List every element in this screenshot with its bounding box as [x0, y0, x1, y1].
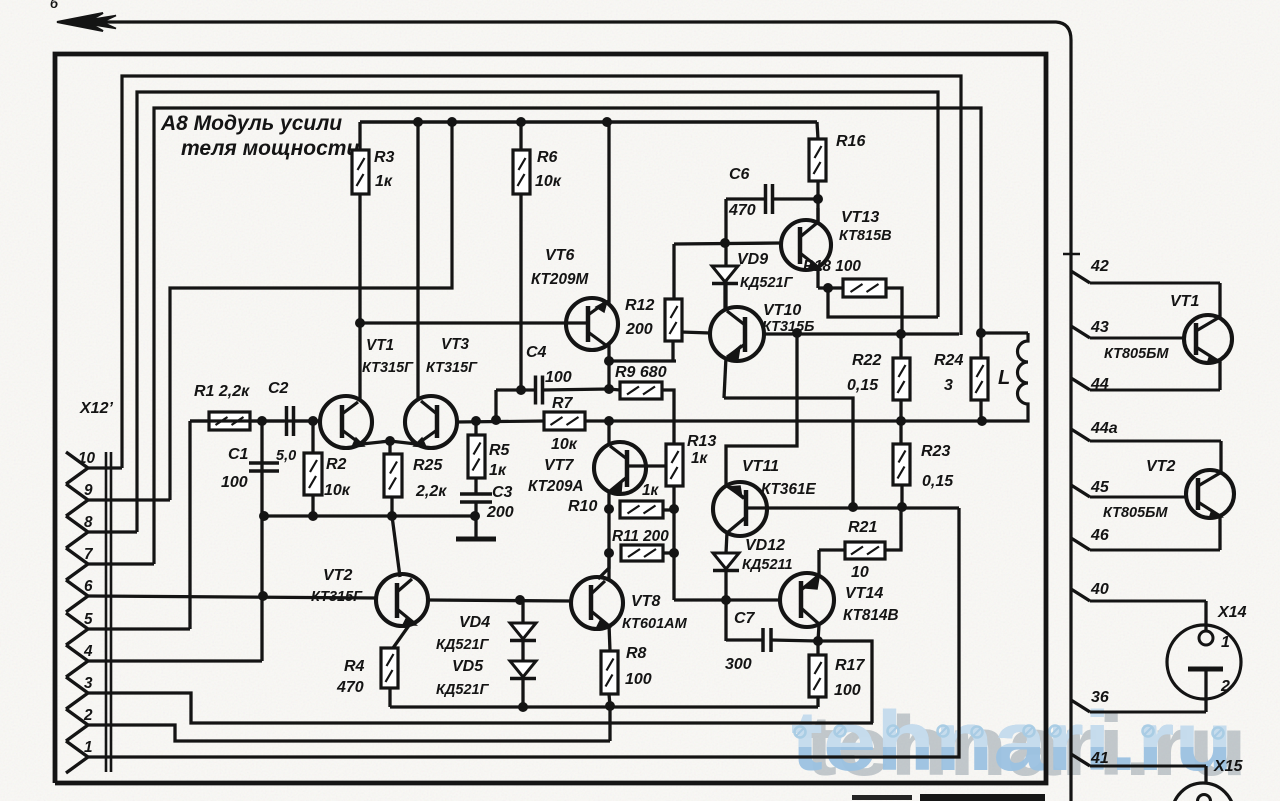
- svg-text:5,0: 5,0: [276, 448, 296, 464]
- svg-text:5: 5: [84, 611, 93, 628]
- svg-text:С4: С4: [526, 344, 547, 361]
- svg-text:R4: R4: [344, 658, 365, 675]
- svg-text:0,15: 0,15: [922, 473, 954, 490]
- svg-text:С1: С1: [228, 446, 249, 463]
- svg-text:VT2: VT2: [1146, 458, 1175, 475]
- svg-text:100: 100: [221, 474, 248, 491]
- svg-text:VT14: VT14: [845, 585, 883, 602]
- svg-text:6: 6: [84, 578, 93, 595]
- svg-text:470: 470: [336, 679, 364, 696]
- svg-text:1: 1: [84, 739, 93, 756]
- svg-text:VT3: VT3: [441, 336, 470, 353]
- svg-text:КД521Г: КД521Г: [436, 682, 490, 698]
- svg-text:45: 45: [1090, 479, 1110, 496]
- svg-text:470: 470: [728, 202, 756, 219]
- svg-text:2: 2: [1220, 678, 1230, 695]
- svg-text:200: 200: [486, 504, 514, 521]
- svg-text:X12’: X12’: [79, 400, 113, 417]
- svg-text:1к: 1к: [375, 173, 393, 190]
- svg-text:КД5211: КД5211: [742, 557, 793, 573]
- svg-text:40: 40: [1090, 581, 1109, 598]
- svg-text:А8 Модуль усили: А8 Модуль усили: [160, 112, 342, 135]
- svg-text:КТ805БМ: КТ805БМ: [1103, 505, 1168, 521]
- svg-text:VT13: VT13: [841, 209, 879, 226]
- svg-text:2: 2: [83, 707, 93, 724]
- svg-text:1к: 1к: [691, 450, 709, 467]
- svg-text:R24: R24: [934, 352, 963, 369]
- svg-text:VT11: VT11: [742, 458, 779, 475]
- svg-text:R25: R25: [413, 457, 443, 474]
- svg-text:VT7: VT7: [544, 457, 574, 474]
- svg-text:R21: R21: [848, 519, 877, 536]
- svg-text:R16: R16: [836, 133, 865, 150]
- svg-text:КТ814В: КТ814В: [843, 607, 899, 624]
- svg-text:R23: R23: [921, 443, 950, 460]
- svg-text:КД521Г: КД521Г: [436, 637, 490, 653]
- svg-text:36: 36: [1091, 689, 1109, 706]
- svg-text:8: 8: [84, 514, 93, 531]
- svg-text:б: б: [50, 0, 59, 11]
- svg-text:R3: R3: [374, 149, 395, 166]
- svg-text:R6: R6: [537, 149, 558, 166]
- svg-text:VT1: VT1: [366, 337, 394, 354]
- svg-text:С6: С6: [729, 166, 750, 183]
- svg-text:R18 100: R18 100: [803, 258, 861, 275]
- svg-text:КТ601АМ: КТ601АМ: [622, 616, 688, 632]
- svg-text:10к: 10к: [324, 482, 351, 499]
- svg-text:VT1: VT1: [1170, 293, 1199, 310]
- svg-text:46: 46: [1090, 527, 1109, 544]
- svg-text:300: 300: [725, 656, 752, 673]
- svg-text:43: 43: [1090, 319, 1109, 336]
- svg-text:КТ315Г: КТ315Г: [426, 360, 478, 376]
- svg-text:1к: 1к: [489, 462, 507, 479]
- svg-text:КТ315Г: КТ315Г: [311, 589, 363, 605]
- svg-text:3: 3: [944, 377, 953, 394]
- svg-text:КТ815В: КТ815В: [839, 228, 892, 244]
- svg-text:44а: 44а: [1090, 420, 1118, 437]
- svg-text:1к: 1к: [642, 482, 660, 499]
- svg-text:VD5: VD5: [452, 658, 484, 675]
- svg-text:R13: R13: [687, 433, 716, 450]
- svg-text:L: L: [998, 367, 1010, 389]
- svg-text:R9 680: R9 680: [615, 364, 667, 381]
- svg-text:VT2: VT2: [323, 567, 352, 584]
- svg-text:200: 200: [625, 321, 653, 338]
- svg-text:42: 42: [1090, 258, 1109, 275]
- svg-text:теля мощности: теля мощности: [181, 137, 359, 160]
- svg-text:R7: R7: [552, 395, 574, 412]
- svg-text:10к: 10к: [551, 436, 578, 453]
- svg-text:Х15: Х15: [1213, 758, 1244, 775]
- svg-text:R1 2,2к: R1 2,2к: [194, 383, 250, 400]
- svg-text:4: 4: [83, 643, 93, 660]
- svg-text:41: 41: [1090, 750, 1109, 767]
- svg-text:R10: R10: [568, 498, 597, 515]
- svg-text:100: 100: [625, 671, 652, 688]
- svg-text:КТ361Е: КТ361Е: [761, 481, 816, 498]
- svg-text:КТ209А: КТ209А: [528, 478, 584, 495]
- svg-text:10: 10: [78, 450, 96, 467]
- svg-text:2,2к: 2,2к: [415, 483, 447, 500]
- svg-text:С3: С3: [492, 484, 513, 501]
- svg-text:10к: 10к: [535, 173, 562, 190]
- svg-text:100: 100: [545, 369, 572, 386]
- svg-text:С7: С7: [734, 610, 756, 627]
- svg-text:R12: R12: [625, 297, 654, 314]
- svg-text:R17: R17: [835, 657, 865, 674]
- svg-text:КТ209М: КТ209М: [531, 271, 589, 288]
- svg-text:VT8: VT8: [631, 593, 660, 610]
- svg-text:R11 200: R11 200: [612, 528, 669, 545]
- svg-text:КТ805БМ: КТ805БМ: [1104, 346, 1169, 362]
- svg-text:1: 1: [1221, 634, 1230, 651]
- svg-text:VD12: VD12: [745, 537, 785, 554]
- svg-text:R8: R8: [626, 645, 647, 662]
- svg-text:100: 100: [834, 682, 861, 699]
- svg-text:10: 10: [851, 564, 869, 581]
- svg-text:С2: С2: [268, 380, 289, 397]
- svg-text:VD9: VD9: [737, 251, 768, 268]
- svg-text:9: 9: [84, 482, 93, 499]
- svg-text:Х14: Х14: [1217, 604, 1247, 621]
- svg-text:VT6: VT6: [545, 247, 574, 264]
- svg-text:R2: R2: [326, 456, 347, 473]
- svg-text:7: 7: [84, 546, 94, 563]
- svg-text:3: 3: [84, 675, 93, 692]
- svg-text:R22: R22: [852, 352, 881, 369]
- svg-text:VD4: VD4: [459, 614, 490, 631]
- svg-text:0,15: 0,15: [847, 377, 879, 394]
- svg-text:VT10: VT10: [763, 302, 801, 319]
- svg-text:КД521Г: КД521Г: [740, 275, 794, 291]
- svg-text:R5: R5: [489, 442, 511, 459]
- svg-text:КТ315Г: КТ315Г: [362, 360, 414, 376]
